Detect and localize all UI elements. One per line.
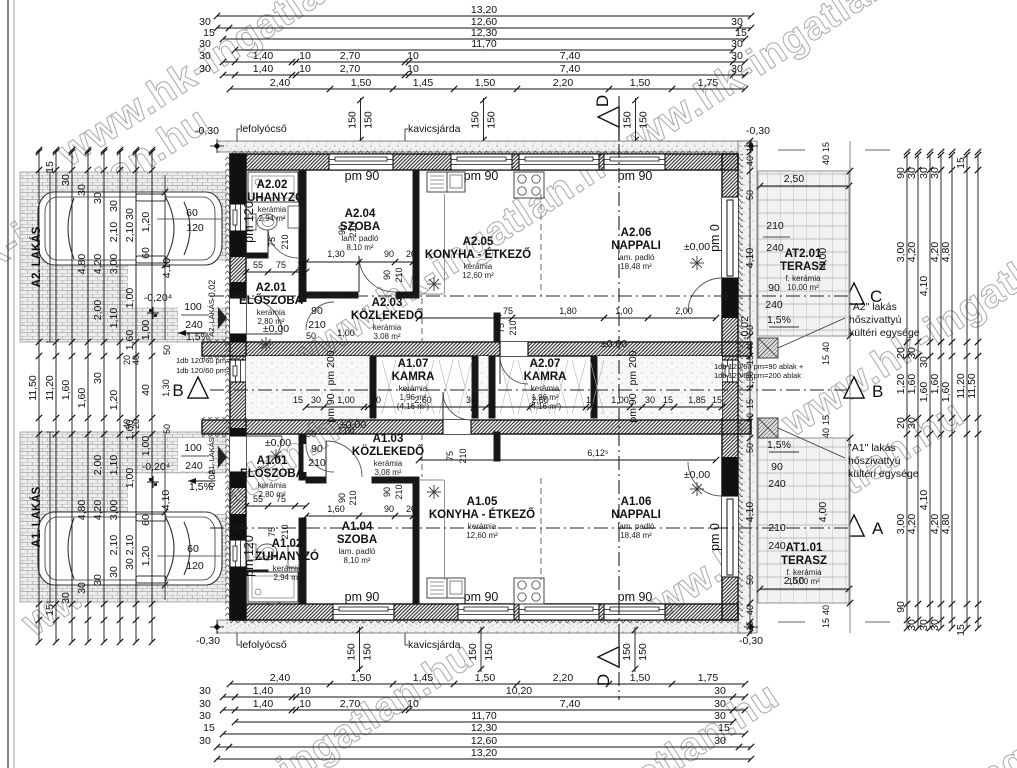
svg-text:1,75: 1,75 — [698, 77, 719, 89]
svg-text:50: 50 — [745, 325, 755, 335]
svg-text:90: 90 — [771, 461, 783, 473]
svg-text:2,80 m²: 2,80 m² — [257, 317, 284, 326]
svg-text:1db 120/60 pm=200 ablak: 1db 120/60 pm=200 ablak — [714, 371, 801, 380]
svg-text:30: 30 — [199, 698, 211, 710]
svg-text:2,40: 2,40 — [270, 77, 291, 89]
svg-text:150: 150 — [637, 643, 649, 661]
svg-text:55: 55 — [253, 494, 263, 504]
svg-text:15: 15 — [821, 618, 831, 628]
svg-text:2,10: 2,10 — [108, 222, 120, 243]
insulation right — [738, 154, 743, 620]
svg-text:1,00: 1,00 — [615, 306, 633, 316]
svg-text:f. kerámia: f. kerámia — [785, 274, 821, 283]
svg-text:pm 90: pm 90 — [325, 393, 337, 422]
svg-text:SZOBA: SZOBA — [337, 534, 377, 546]
svg-text:30: 30 — [645, 395, 655, 405]
svg-text:8,10 m²: 8,10 m² — [343, 556, 370, 565]
svg-text:90: 90 — [384, 249, 394, 259]
svg-text:1,45: 1,45 — [413, 77, 434, 89]
terrace right edge line — [849, 141, 851, 633]
svg-text:11,50: 11,50 — [27, 375, 39, 401]
svg-text:2,94 m²: 2,94 m² — [258, 214, 285, 223]
top gutter dim 150 — [635, 98, 637, 141]
svg-text:lefolyócső: lefolyócső — [240, 639, 287, 651]
svg-text:30: 30 — [92, 192, 104, 204]
svg-text:kerámia: kerámia — [468, 522, 497, 531]
svg-text:1,80: 1,80 — [559, 306, 577, 316]
svg-text:30: 30 — [199, 38, 211, 50]
svg-text:A2.05: A2.05 — [463, 236, 494, 248]
window bottom wall — [333, 604, 394, 620]
svg-text:1,20: 1,20 — [140, 546, 152, 567]
label A1 lakas — [49, 432, 51, 602]
svg-text:1,00: 1,00 — [124, 288, 136, 309]
svg-text:4,80: 4,80 — [940, 514, 952, 535]
bottom dimension chain 10,20 — [223, 696, 745, 698]
bottom dimension chain rooms — [223, 709, 745, 711]
parking pad brick A2 — [20, 172, 226, 342]
svg-text:±0,00: ±0,00 — [684, 241, 710, 253]
svg-text:20: 20 — [131, 419, 141, 429]
svg-text:2,70: 2,70 — [340, 63, 361, 75]
party wall lower — [202, 420, 751, 434]
room boundary dashed A1 — [540, 478, 542, 580]
boundary line — [7, 0, 9, 768]
window top wall — [604, 154, 665, 170]
svg-text:2,94 m²: 2,94 m² — [273, 573, 300, 582]
bottom dimension chain 12,30 — [223, 733, 745, 735]
shower tray A1 — [248, 572, 298, 602]
svg-text:1,60: 1,60 — [327, 504, 345, 514]
svg-text:120: 120 — [186, 222, 204, 234]
section marker B right — [844, 377, 864, 398]
svg-text:kerámia: kerámia — [464, 262, 493, 271]
top gutter dim 150 — [483, 98, 485, 141]
svg-text:4,80: 4,80 — [940, 242, 952, 263]
svg-text:40: 40 — [140, 384, 152, 396]
svg-text:30: 30 — [199, 685, 211, 697]
svg-text:150: 150 — [622, 111, 634, 129]
svg-text:240: 240 — [768, 540, 786, 552]
svg-text:40: 40 — [821, 605, 831, 615]
svg-text:4,80: 4,80 — [76, 254, 88, 275]
svg-text:KAMRA: KAMRA — [524, 371, 567, 383]
svg-text:4,20: 4,20 — [906, 514, 918, 535]
svg-text:30: 30 — [108, 200, 120, 212]
svg-text:A2. LAKÁS: A2. LAKÁS — [30, 226, 43, 287]
svg-text:KONYHA - ÉTKEZŐ: KONYHA - ÉTKEZŐ — [425, 248, 531, 261]
WC A2 — [248, 214, 256, 230]
kamra A2.07 walls — [489, 356, 495, 418]
svg-text:12,30: 12,30 — [471, 722, 497, 734]
svg-text:ZUHANYZÓ: ZUHANYZÓ — [255, 550, 319, 563]
svg-text:kerámia: kerámia — [399, 384, 428, 393]
svg-text:18,48 m²: 18,48 m² — [620, 531, 652, 540]
terrace door gap A1 — [722, 496, 738, 577]
svg-text:2,00: 2,00 — [675, 306, 693, 316]
svg-text:13,20: 13,20 — [471, 747, 497, 759]
window top wall — [451, 154, 512, 170]
svg-text:1db 120/60 pm=90 ablak +: 1db 120/60 pm=90 ablak + — [714, 362, 804, 371]
svg-text:lefolyócső: lefolyócső — [240, 123, 287, 135]
svg-text:30: 30 — [906, 417, 918, 429]
svg-text:90: 90 — [895, 601, 907, 613]
svg-text:15: 15 — [293, 395, 303, 405]
svg-text:1,40: 1,40 — [253, 698, 274, 710]
svg-text:150: 150 — [621, 643, 633, 661]
svg-text:100: 100 — [184, 301, 202, 313]
svg-text:1,10: 1,10 — [108, 308, 120, 329]
svg-text:15: 15 — [821, 142, 831, 152]
svg-text:30: 30 — [906, 347, 918, 359]
svg-text:210: 210 — [280, 234, 290, 249]
left wall black jambs — [230, 170, 246, 204]
svg-text:10: 10 — [371, 395, 381, 405]
svg-text:40: 40 — [745, 605, 755, 615]
basin A1 — [288, 546, 299, 568]
svg-text:pm 200: pm 200 — [627, 350, 639, 385]
svg-text:±0,00: ±0,00 — [265, 437, 291, 449]
svg-text:B: B — [872, 382, 883, 401]
svg-text:-0,02: -0,02 — [207, 280, 217, 301]
bottom dimension chain 12,60 — [217, 746, 751, 748]
svg-text:D: D — [593, 95, 612, 107]
svg-text:7,40: 7,40 — [560, 698, 581, 710]
svg-text:40: 40 — [131, 355, 141, 365]
top dimension chain 12,30 — [223, 38, 745, 40]
svg-text:15: 15 — [663, 395, 673, 405]
svg-text:1,30: 1,30 — [161, 379, 171, 397]
svg-text:KONYHA - ÉTKEZŐ: KONYHA - ÉTKEZŐ — [429, 508, 535, 521]
svg-text:150: 150 — [467, 643, 479, 661]
svg-text:30: 30 — [60, 174, 72, 186]
svg-text:3,00: 3,00 — [108, 254, 120, 275]
svg-text:1,96 m²: 1,96 m² — [531, 393, 558, 402]
corner marker — [214, 624, 221, 631]
label band white A1 — [128, 474, 227, 514]
right wall black segment A1 above door — [722, 457, 738, 497]
section marker D bottom — [598, 647, 619, 667]
svg-text:30: 30 — [199, 63, 211, 75]
shower tray A2 — [248, 172, 298, 202]
kamra A1.07 walls — [370, 356, 376, 418]
lamp symbol kitchen A2 — [427, 283, 441, 285]
section line C (over) — [210, 295, 848, 297]
svg-text:210: 210 — [280, 524, 290, 539]
svg-text:2,50: 2,50 — [784, 173, 805, 185]
svg-text:210: 210 — [508, 320, 518, 335]
svg-text:12,60: 12,60 — [471, 735, 497, 747]
svg-text:210: 210 — [766, 220, 784, 232]
svg-text:240: 240 — [185, 319, 203, 331]
svg-text:pm 90: pm 90 — [627, 393, 639, 422]
svg-text:pm 90: pm 90 — [464, 590, 499, 604]
svg-text:1,60: 1,60 — [76, 388, 88, 409]
svg-text:1,40: 1,40 — [253, 685, 274, 697]
svg-text:20: 20 — [406, 504, 416, 514]
section marker D top — [598, 107, 619, 127]
svg-text:1,60: 1,60 — [60, 380, 72, 401]
svg-text:15: 15 — [955, 624, 967, 636]
kamra A2.07 shelves — [500, 360, 514, 414]
svg-text:100: 100 — [184, 442, 202, 454]
svg-text:75: 75 — [445, 451, 455, 461]
svg-text:210: 210 — [394, 484, 404, 499]
svg-text:240: 240 — [185, 460, 203, 472]
kitchen counter A1 — [444, 480, 446, 580]
window left wall section B upper — [230, 360, 246, 382]
svg-text:4,10: 4,10 — [918, 276, 930, 297]
svg-text:11,20: 11,20 — [44, 375, 56, 401]
interior wall A1 zuhanyzo top — [246, 570, 268, 575]
svg-text:ELŐSZOBA: ELŐSZOBA — [240, 467, 304, 480]
svg-text:-0,30: -0,30 — [195, 125, 219, 137]
svg-text:90: 90 — [382, 270, 392, 280]
lamp symbol nappali A2 — [690, 262, 704, 264]
top gutter dim 150 — [360, 98, 362, 141]
svg-text:A1.01: A1.01 — [257, 455, 288, 467]
svg-text:10: 10 — [299, 698, 311, 710]
door A2 eloszoba-kozlekedo — [304, 302, 309, 330]
svg-text:1,50: 1,50 — [630, 672, 651, 684]
svg-text:12,60 m²: 12,60 m² — [462, 271, 494, 280]
section marker B left — [188, 377, 208, 398]
svg-text:10: 10 — [299, 685, 311, 697]
svg-text:10: 10 — [407, 698, 419, 710]
svg-text:10: 10 — [297, 260, 307, 270]
svg-text:15: 15 — [44, 161, 56, 173]
top dimension chain 13,20 — [217, 15, 751, 17]
svg-text:60: 60 — [186, 207, 198, 219]
svg-text:-0,02: -0,02 — [207, 470, 217, 491]
svg-text:KÖZLEKEDŐ: KÖZLEKEDŐ — [352, 445, 424, 458]
stray extension lines — [778, 621, 805, 623]
svg-text:30: 30 — [906, 167, 918, 179]
svg-text:11,70: 11,70 — [471, 710, 497, 722]
window left wall A1 (shower) — [230, 540, 246, 567]
svg-text:15: 15 — [718, 722, 730, 734]
svg-text:75: 75 — [267, 237, 277, 247]
insulation left — [225, 154, 230, 620]
svg-text:lam. padló: lam. padló — [618, 253, 655, 262]
svg-text:1,00: 1,00 — [140, 436, 152, 457]
section marker A left — [188, 515, 208, 536]
svg-text:kerámia: kerámia — [273, 564, 302, 573]
svg-text:pm 90: pm 90 — [345, 590, 380, 604]
svg-text:1,00: 1,00 — [337, 426, 355, 436]
window bottom wall — [604, 604, 665, 620]
svg-text:"A1" lakás: "A1" lakás — [848, 442, 896, 454]
svg-text:A2.01: A2.01 — [256, 282, 287, 294]
svg-text:(4,16 m²): (4,16 m²) — [397, 402, 430, 411]
kamra door A1.07 (lower band gap) — [443, 420, 471, 434]
insulation top — [230, 149, 738, 154]
bottom dimension chain openings — [230, 683, 745, 685]
svg-text:10,20: 10,20 — [506, 685, 532, 697]
svg-text:10: 10 — [586, 395, 596, 405]
car length dim 4,10 A2 — [164, 175, 166, 340]
svg-text:15: 15 — [745, 621, 755, 631]
svg-text:210: 210 — [348, 490, 358, 505]
svg-text:30: 30 — [714, 710, 726, 722]
section marker C left — [188, 283, 208, 304]
section line A (over) — [210, 527, 848, 529]
svg-text:10: 10 — [299, 50, 311, 62]
svg-text:-0,30: -0,30 — [746, 125, 770, 137]
interior wall A1 kitchen stub — [494, 432, 500, 461]
svg-text:240: 240 — [765, 299, 783, 311]
svg-text:40: 40 — [745, 156, 755, 166]
svg-text:pm 200: pm 200 — [325, 350, 337, 385]
svg-text:50: 50 — [745, 575, 755, 585]
svg-text:-0,20⁴: -0,20⁴ — [144, 292, 172, 304]
svg-text:1,00: 1,00 — [337, 395, 355, 405]
boxed label 120/60 left — [250, 368, 292, 402]
svg-text:120: 120 — [186, 560, 204, 572]
svg-text:A2.04: A2.04 — [345, 208, 376, 220]
lamp symbol nappali A1 — [690, 488, 704, 490]
wall corner block — [230, 154, 246, 170]
svg-text:3,00: 3,00 — [108, 500, 120, 521]
svg-text:15: 15 — [745, 399, 755, 409]
svg-text:210: 210 — [458, 448, 468, 463]
svg-text:30: 30 — [714, 685, 726, 697]
svg-text:kavicsjárda: kavicsjárda — [408, 123, 461, 135]
svg-text:1,75: 1,75 — [698, 672, 719, 684]
right wall black segment A2 below door — [722, 278, 738, 318]
svg-text:3,08 m²: 3,08 m² — [373, 332, 400, 341]
svg-text:7,40: 7,40 — [560, 63, 581, 75]
svg-text:50: 50 — [306, 331, 316, 341]
svg-text:1,20: 1,20 — [108, 390, 120, 411]
breezeway dotted floor — [246, 356, 370, 418]
svg-text:1,50: 1,50 — [475, 672, 496, 684]
top dimension chain 12,60 — [217, 27, 751, 29]
svg-text:2,20: 2,20 — [553, 77, 574, 89]
svg-text:1,50: 1,50 — [475, 77, 496, 89]
svg-text:pm 0: pm 0 — [708, 224, 722, 252]
svg-text:30: 30 — [124, 208, 136, 220]
svg-text:30: 30 — [918, 356, 930, 368]
interior wall A2 vertical bath/szoba — [299, 170, 306, 256]
window top wall — [519, 154, 599, 170]
svg-text:kerámia: kerámia — [373, 323, 402, 332]
svg-text:40: 40 — [821, 428, 831, 438]
svg-text:1,60: 1,60 — [124, 330, 136, 351]
car A2 — [38, 192, 222, 265]
svg-text:kültéri egysége: kültéri egysége — [849, 327, 920, 339]
svg-text:1,00: 1,00 — [124, 468, 136, 489]
svg-text:240: 240 — [768, 478, 786, 490]
svg-text:90: 90 — [384, 504, 394, 514]
room boundary dashed A2 — [540, 194, 542, 296]
svg-text:A1.05: A1.05 — [467, 496, 498, 508]
svg-text:2,50: 2,50 — [784, 575, 805, 587]
svg-text:pm 90: pm 90 — [345, 169, 380, 183]
svg-text:pm 90: pm 90 — [618, 169, 653, 183]
svg-text:1,96 m²: 1,96 m² — [399, 393, 426, 402]
right mini dim column — [749, 141, 751, 633]
svg-text:15: 15 — [821, 355, 831, 365]
svg-text:10: 10 — [407, 50, 419, 62]
svg-text:150: 150 — [346, 643, 358, 661]
zone boundary dashed A1 kozlekedo — [421, 434, 423, 477]
svg-text:150: 150 — [347, 111, 359, 129]
WC A1 — [248, 544, 256, 560]
svg-text:55: 55 — [253, 260, 263, 270]
svg-text:15: 15 — [44, 604, 56, 616]
svg-text:60: 60 — [140, 247, 152, 259]
party wall upper — [202, 342, 751, 356]
svg-text:pm 120: pm 120 — [242, 535, 256, 577]
svg-text:30: 30 — [714, 735, 726, 747]
svg-text:30: 30 — [199, 735, 211, 747]
corner marker — [748, 624, 755, 631]
svg-text:30: 30 — [92, 372, 104, 384]
interior wall A2 kitchen stub — [494, 313, 500, 342]
insulation bottom — [230, 620, 738, 625]
svg-text:15: 15 — [745, 142, 755, 152]
heat pump A1 — [758, 418, 778, 438]
kamra door A2.07 (upper band gap) — [500, 342, 528, 356]
svg-text:10: 10 — [299, 63, 311, 75]
label band white A2 — [128, 261, 227, 307]
svg-text:2,10: 2,10 — [124, 222, 136, 243]
svg-text:30: 30 — [76, 184, 88, 196]
svg-text:2,10: 2,10 — [108, 535, 120, 556]
svg-text:kerámia: kerámia — [531, 384, 560, 393]
svg-text:50: 50 — [745, 190, 755, 200]
svg-text:A1.07: A1.07 — [398, 358, 429, 370]
svg-text:75: 75 — [276, 494, 286, 504]
svg-text:30: 30 — [929, 619, 941, 631]
interior wall A2 szoba bottom — [306, 292, 358, 298]
top dimension chain rooms 1 — [223, 61, 745, 63]
svg-text:(4,16 m²): (4,16 m²) — [529, 402, 562, 411]
dims A1 nappali line — [419, 459, 716, 461]
svg-text:150: 150 — [363, 111, 375, 129]
svg-text:4,10: 4,10 — [160, 490, 172, 511]
svg-text:B: B — [172, 381, 183, 400]
window top wall — [329, 154, 393, 170]
svg-text:kerámia: kerámia — [258, 481, 287, 490]
section line D vertical (over) — [618, 96, 620, 700]
svg-text:kerámia: kerámia — [258, 205, 287, 214]
svg-text:1,60: 1,60 — [906, 374, 918, 395]
interior wall A2 zuhanyzo bottom — [246, 253, 268, 258]
svg-text:15: 15 — [203, 722, 215, 734]
svg-text:90: 90 — [382, 487, 392, 497]
svg-text:pm 90: pm 90 — [618, 590, 653, 604]
window bottom wall — [519, 604, 599, 620]
svg-text:1,20: 1,20 — [140, 212, 152, 233]
svg-text:1,00: 1,00 — [140, 320, 152, 341]
svg-text:12,60 m²: 12,60 m² — [466, 531, 498, 540]
svg-text:40: 40 — [821, 342, 831, 352]
svg-text:4,80: 4,80 — [76, 500, 88, 521]
svg-text:150: 150 — [486, 111, 498, 129]
svg-text:kerámia: kerámia — [257, 308, 286, 317]
bottom gutter dims — [359, 627, 361, 672]
label A2 lakas — [49, 172, 51, 342]
svg-text:-0,20⁴: -0,20⁴ — [142, 461, 170, 473]
window right wall section B — [722, 360, 738, 382]
svg-text:±0,00: ±0,00 — [601, 338, 627, 350]
svg-text:A2.03: A2.03 — [372, 297, 403, 309]
gravel walk right — [738, 141, 757, 633]
svg-text:90: 90 — [311, 443, 323, 455]
svg-text:1,60: 1,60 — [940, 382, 952, 403]
